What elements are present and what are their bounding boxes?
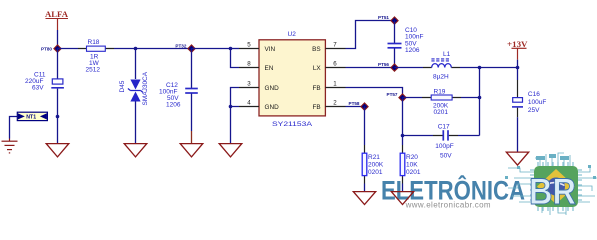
svg-text:6: 6 [333,61,337,68]
ground triangle D45 [124,144,147,157]
wire L1 to +13V node [460,67,518,69]
wire to pin5 [231,48,240,50]
svg-text:EN: EN [265,65,274,72]
svg-text:0201: 0201 [434,109,449,116]
svg-text:7: 7 [333,42,337,49]
wire BS to PT51 [346,21,395,49]
ground triangle R21 [353,192,375,205]
svg-text:L1: L1 [443,51,451,58]
pin 4 GND [239,100,279,111]
ground triangle IC [219,144,242,157]
junction C17 left [401,134,405,138]
svg-text:+13V: +13V [507,39,528,49]
pin 6 LX [313,61,346,72]
node PT80 [41,45,61,52]
svg-text:2512: 2512 [86,66,101,73]
svg-text:SMAJ30CA: SMAJ30CA [142,71,149,105]
svg-text:SY21153A: SY21153A [272,121,313,128]
earth ground under NT1 [2,139,18,153]
net label ALFA [45,9,69,30]
capacitor C17 [403,123,480,159]
wire R19 right to rail drop [461,97,480,99]
svg-text:GND: GND [265,85,280,92]
svg-text:PT56: PT56 [378,62,389,67]
pin 1 FB [313,81,346,92]
wire FB2 to PT58 [346,106,365,108]
net tie NT1 [10,112,48,138]
wire vertical L1junction to C17 [479,68,481,136]
svg-text:8: 8 [247,61,251,68]
pin 2 FB [313,100,346,111]
svg-text:R20: R20 [406,154,418,161]
ground triangle left [46,144,69,157]
wire EN vertical [231,49,240,68]
resistor R19 [403,88,462,116]
ground triangle C16 [506,152,528,165]
svg-text:2: 2 [333,100,337,107]
wire FB1 to PT57 [346,88,403,98]
svg-text:BS: BS [312,46,321,53]
junction +13V [516,66,520,70]
power port +13V [507,39,528,68]
capacitor C10 [388,21,424,68]
svg-text:100uF: 100uF [528,99,546,106]
svg-text:1206: 1206 [405,47,420,54]
inductor L1 [395,51,461,80]
junction R19 right [478,96,482,100]
svg-text:PT80: PT80 [41,47,52,52]
svg-text:PT58: PT58 [349,101,360,106]
wire D45 node to PT32 [136,48,192,50]
wire LX to PT56 [346,67,395,69]
svg-text:3: 3 [247,81,251,88]
junction EN drop [229,47,233,51]
svg-text:PT51: PT51 [378,15,389,20]
svg-text:200K: 200K [368,161,384,168]
wire NT1 node down [57,117,59,144]
svg-text:63V: 63V [32,85,44,92]
svg-text:PT57: PT57 [387,92,398,97]
svg-text:www.eletronicabr.com: www.eletronicabr.com [405,200,491,209]
junction NT1 [56,115,60,119]
resistor R18 [78,39,114,73]
ground triangle C12 [180,144,203,157]
node PT51 [378,15,398,24]
svg-text:LX: LX [313,65,322,72]
watermark logo ELETRONICA BR [381,153,597,215]
svg-text:NT1: NT1 [26,115,36,121]
resistor R20 [400,136,421,192]
capacitor C12 [159,49,198,144]
svg-text:5: 5 [247,42,251,49]
capacitor C11 [25,49,64,117]
svg-text:FB: FB [313,85,321,92]
svg-text:25V: 25V [528,107,540,114]
wire rail VIN left [58,48,79,50]
svg-text:8µ2H: 8µ2H [433,73,449,80]
capacitor C16 [512,68,546,153]
TVS diode D45 [119,49,149,144]
svg-text:U2: U2 [288,31,297,38]
resistor R21 [362,107,384,192]
node PT56 [378,62,398,71]
svg-text:ALFA: ALFA [45,9,69,19]
wire R18 to D45 node [114,48,136,50]
svg-text:BR: BR [529,171,576,212]
junction D45 top [134,47,138,51]
svg-text:PT32: PT32 [175,44,186,49]
svg-text:1206: 1206 [166,102,181,109]
wire PT57 down to C17 node [402,98,404,136]
ground triangle R20 [391,192,413,205]
chip pins [530,162,582,211]
svg-text:0201: 0201 [368,169,383,176]
wire ALFA to PT80 [57,30,59,49]
svg-text:R19: R19 [434,88,446,95]
svg-text:10K: 10K [406,161,418,168]
svg-text:D45: D45 [119,80,126,92]
svg-text:C17: C17 [438,123,450,130]
svg-text:VIN: VIN [265,46,276,53]
junction L1 right [478,66,482,70]
op-amp U2 body [259,31,325,128]
pin 8 EN [239,61,274,72]
svg-text:50V: 50V [440,153,452,160]
svg-text:C16: C16 [528,91,540,98]
svg-text:100pF: 100pF [435,143,453,150]
svg-text:FB: FB [313,104,321,111]
svg-text:0201: 0201 [406,169,421,176]
node PT32 [175,44,195,53]
junction GND pin4 [229,105,233,109]
svg-text:4: 4 [247,100,251,107]
pin 7 BS [312,42,345,53]
pin 5 VIN [239,42,276,53]
node PT57 [387,92,407,101]
node PT58 [349,101,369,110]
pin 3 GND [239,81,279,92]
wire PT32 to EN node [192,48,231,50]
svg-text:1: 1 [333,81,337,88]
wire GND pins bus [231,88,240,144]
svg-text:R21: R21 [368,154,380,161]
svg-text:GND: GND [265,104,280,111]
svg-text:R18: R18 [88,39,100,46]
